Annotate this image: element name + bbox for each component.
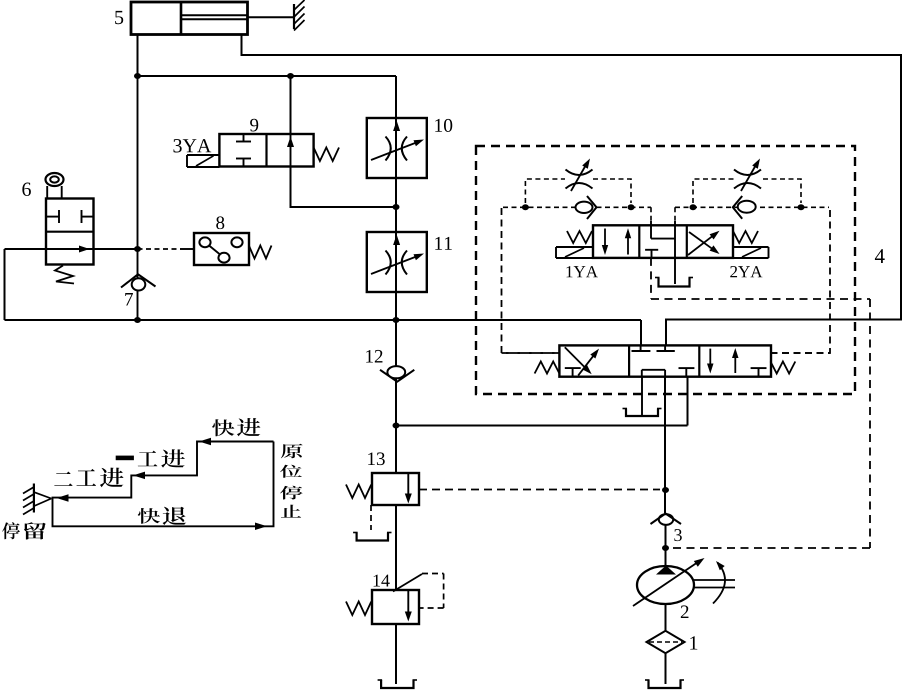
wire check3 to pump <box>665 525 667 567</box>
junction dot F <box>393 317 400 323</box>
cam roller valve 6 <box>22 173 94 284</box>
label first work feed <box>116 449 185 467</box>
state path <box>53 442 274 527</box>
variable pump 2 <box>633 558 705 618</box>
wire cross link <box>396 425 688 427</box>
wire cylinder left port <box>137 35 139 77</box>
label fast forward <box>212 418 260 436</box>
main valve pilot caps dashed <box>502 352 831 354</box>
pilot valve ports dashed <box>651 207 675 221</box>
label fast return <box>138 507 186 525</box>
main directional valve <box>535 345 796 376</box>
tank below main valve <box>623 409 662 417</box>
throttle valve 10 <box>367 118 452 178</box>
check valve 12 <box>366 320 414 382</box>
state diagram wall <box>23 484 51 515</box>
wire A-port drop <box>640 320 642 346</box>
junction dot C <box>393 204 400 210</box>
solenoid valve 9 (3YA) <box>173 119 339 167</box>
wire head-end manifold <box>138 75 397 77</box>
dashed enclosure 4 <box>476 146 885 394</box>
wire valve 9 to node C <box>291 167 395 208</box>
travel valve 8 <box>194 216 272 265</box>
junction dot H <box>522 204 529 210</box>
pilot wire valve 13 <box>419 489 660 491</box>
wire main return line <box>5 319 642 321</box>
junction dot B <box>287 73 294 79</box>
wire 14 to tank <box>395 624 397 684</box>
label dwell <box>2 522 46 539</box>
state arrow second-feed <box>57 494 69 502</box>
junction dot D <box>134 246 141 252</box>
check valve 3 <box>651 514 682 542</box>
wire filter to tank <box>665 653 667 684</box>
fixed anchor (rod end) <box>294 0 305 31</box>
wire down through throttles <box>395 76 397 320</box>
label second work feed <box>54 468 123 488</box>
sequence valve 13 <box>346 452 419 505</box>
label home stop <box>280 444 303 518</box>
pilot valve drain to tank <box>674 258 676 284</box>
back-pressure valve 14 <box>346 574 444 625</box>
pilot solenoid valve 1YA/2YA <box>556 221 769 277</box>
main valve tank drain <box>641 377 643 415</box>
junction dot L <box>662 487 669 493</box>
tank below valve 14 <box>378 680 417 688</box>
wire pump to filter <box>665 604 667 631</box>
state arrow fast-return <box>255 523 267 531</box>
junction dot G <box>393 423 400 429</box>
piston rod <box>248 16 294 18</box>
tank below filter <box>645 680 684 688</box>
pilot choke right <box>675 159 829 219</box>
wire valve 6 left <box>94 248 138 250</box>
junction dot E <box>134 317 141 323</box>
junction dot I <box>628 204 635 210</box>
check valve 7 <box>121 76 156 320</box>
tank below pilot valve <box>655 278 693 287</box>
junction dot J <box>690 204 697 210</box>
drain valve 13 <box>353 505 391 541</box>
hydraulic cylinder 5 <box>115 2 248 35</box>
wire valve 6 loop <box>5 249 47 320</box>
pilot choke left <box>503 159 651 220</box>
junction dot M <box>662 545 669 551</box>
state arrow fast-forward <box>199 438 211 445</box>
wire P-branch drop <box>687 377 689 426</box>
pump drive symbol <box>694 561 735 604</box>
wire main pressure <box>664 377 666 513</box>
junction dot A <box>134 73 141 79</box>
throttle valve 11 <box>367 232 452 292</box>
wire to valve 9 <box>290 76 292 134</box>
state arrow first-feed <box>133 472 145 480</box>
wire cylinder right port <box>242 35 902 347</box>
junction dot K <box>798 204 805 210</box>
pilot wire to valve 8 <box>138 248 195 250</box>
wire below check 12 <box>395 379 397 474</box>
filter 1 <box>647 631 698 653</box>
pilot supply dashed <box>651 258 870 548</box>
wire 13 to 14 <box>395 505 397 590</box>
pilot frame dashed <box>502 207 831 353</box>
